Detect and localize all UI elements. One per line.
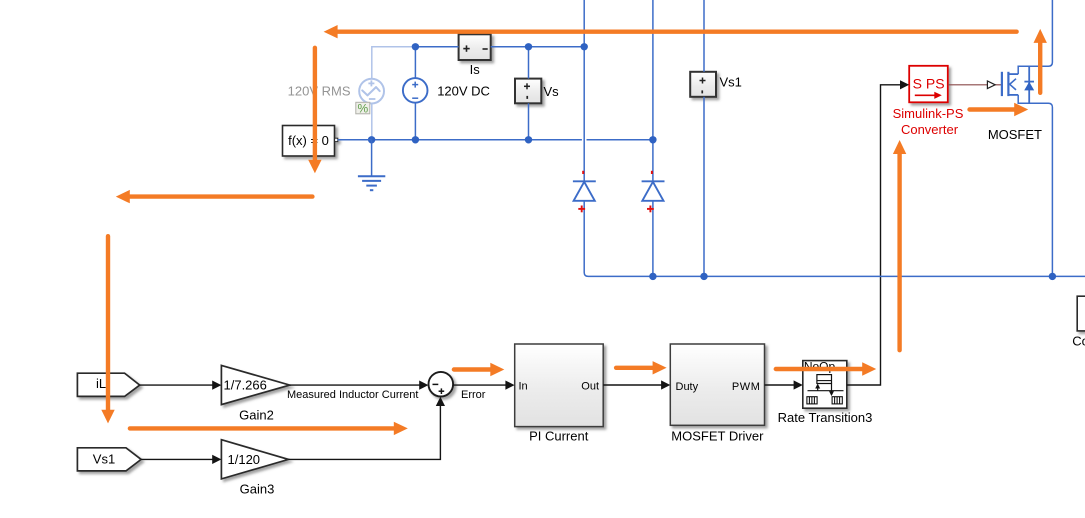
annotation arrow A1 top long left <box>324 25 1017 38</box>
annotation arrow A11 right at MOSFET source <box>970 103 1029 116</box>
junction node bottom bus at Vs1 <box>700 273 707 280</box>
annotation arrow A4 vertical down left <box>101 236 114 423</box>
wire MOSFET Driver to Rate Transition3 <box>765 384 795 386</box>
svg-text:Measured Inductor Current: Measured Inductor Current <box>287 389 418 401</box>
wire PI Current to MOSFET Driver <box>603 384 662 386</box>
sum block (error junction) <box>429 372 454 397</box>
svg-text:PI Current: PI Current <box>529 429 589 444</box>
svg-text:Vs1: Vs1 <box>720 75 742 90</box>
svg-text:S PS: S PS <box>913 76 945 92</box>
AC voltage source 120V RMS (commented through, faded) <box>359 47 415 140</box>
annotation arrow A8 over Rate Transition3 <box>776 362 876 375</box>
junction node bottom bus at MOSFET source <box>1049 273 1056 280</box>
annotation arrow A9 long up to converter <box>893 140 906 350</box>
svg-text:Vs: Vs <box>544 84 560 99</box>
wire Gain2 to sum (Measured Inductor Current) <box>290 384 420 386</box>
diode D2 anode red plus <box>647 206 654 213</box>
solver block f(x)=0 <box>283 126 338 157</box>
svg-text:Gain3: Gain3 <box>240 482 275 497</box>
diode D1 anode red plus <box>578 206 585 213</box>
input port iL <box>77 373 139 396</box>
wire Rate Transition3 feedback up to Simulink-PS converter <box>847 85 900 385</box>
svg-text:Rate Transition3: Rate Transition3 <box>778 410 873 425</box>
ground symbol <box>371 140 373 176</box>
wire Vs sensor top <box>528 47 530 79</box>
gain block Gain2 <box>221 365 289 404</box>
svg-text:iL: iL <box>96 376 106 391</box>
svg-text:Simulink-PS: Simulink-PS <box>893 106 964 121</box>
Vs1 plus mark <box>700 78 706 84</box>
wire diode D2 to bottom bus <box>652 201 654 277</box>
Vs plus mark <box>524 83 530 89</box>
annotation arrow A10 up at MOSFET drain <box>1034 29 1047 93</box>
Rate Transition3 icon output arrow down <box>831 384 833 393</box>
svg-text:PWM: PWM <box>732 381 761 393</box>
Rate Transition3 icon right hatched clock box <box>832 397 842 404</box>
junction node top bus at DC source <box>412 43 419 50</box>
svg-text:Is: Is <box>470 62 481 77</box>
vertical wire to diode D1 from top edge <box>583 0 585 181</box>
svg-text:120V RMS: 120V RMS <box>288 83 351 98</box>
wire sum to PI Current (Error) <box>453 384 505 386</box>
PS signal wire converter to MOSFET gate <box>948 84 988 86</box>
junction node top bus at Vs <box>525 43 532 50</box>
input port Vs1 <box>77 448 141 471</box>
Vs1 bottom polarity tick <box>701 90 703 93</box>
svg-text:MOSFET: MOSFET <box>988 127 1042 142</box>
svg-text:NoOp: NoOp <box>804 360 836 374</box>
Vs bottom polarity tick <box>526 96 528 99</box>
voltage sensor Vs1 block <box>690 72 716 97</box>
svg-text:Error: Error <box>461 389 486 401</box>
svg-text:1/120: 1/120 <box>228 452 261 467</box>
partial block Co... at right edge <box>1077 296 1085 331</box>
physical wire top bus right segment <box>491 46 585 48</box>
subsystem MOSFET Driver <box>670 344 764 425</box>
svg-text:1/7.266: 1/7.266 <box>224 378 267 393</box>
annotation arrow A5 long bottom right <box>130 422 408 435</box>
sum minus sign <box>433 383 439 385</box>
wire diode D1 to bottom bus (rounded corner) and bottom bus <box>584 201 1085 277</box>
vertical wire to diode D2 from top edge <box>652 0 654 181</box>
junction node mid bus at DC source <box>412 136 419 143</box>
wire MOSFET drain up to top edge <box>1018 0 1052 74</box>
svg-text:120V DC: 120V DC <box>437 84 490 99</box>
wire Vs1 to Gain3 <box>141 458 213 460</box>
svg-text:%: % <box>357 101 368 115</box>
diode D2 <box>642 181 665 201</box>
svg-text:In: In <box>519 381 528 393</box>
svg-text:Vs1: Vs1 <box>93 452 115 467</box>
subsystem PI Current <box>515 344 604 427</box>
vertical wire to sensor Vs1 from top edge <box>703 0 705 72</box>
junction node mid bus at D2 <box>649 136 656 143</box>
comment-through percent badge <box>356 102 370 114</box>
wire DC source top <box>414 47 416 79</box>
transistor MOSFET <box>1002 66 1034 103</box>
Is plus mark <box>463 45 469 51</box>
wire iL to Gain2 <box>140 384 213 386</box>
junction node bottom bus at D2 <box>649 273 656 280</box>
annotation arrow A6 over Error wire <box>454 363 504 376</box>
annotation arrow A7 PI to Driver <box>616 361 667 374</box>
annotation arrow A3 mid left <box>116 190 313 203</box>
physical wire top bus left segment <box>415 46 458 48</box>
block Rate Transition3 <box>803 361 847 409</box>
PS signal open arrowhead at gate <box>987 81 995 89</box>
svg-text:Duty: Duty <box>676 381 699 393</box>
svg-text:Converter: Converter <box>901 122 959 137</box>
Rate Transition3 icon left hatched clock box <box>807 397 817 404</box>
svg-text:MOSFET Driver: MOSFET Driver <box>671 429 764 444</box>
Is minus mark <box>483 48 488 50</box>
svg-text:Gain2: Gain2 <box>239 407 274 422</box>
wire DC source bottom <box>414 103 416 140</box>
junction node mid bus at ground <box>368 136 375 143</box>
gain block Gain3 <box>221 440 288 479</box>
MOSFET body diode triangle <box>1024 82 1034 91</box>
physical wire mid bus from solver to diode D2 (gap at D1 line) <box>338 139 582 141</box>
DC voltage source 120V DC <box>403 78 428 103</box>
svg-text:Con: Con <box>1072 333 1085 348</box>
diode D2 cathode red tick <box>651 171 653 174</box>
Rate Transition3 icon input arrow up <box>817 386 819 391</box>
annotation arrow A2 vertical down near solver <box>308 48 321 174</box>
sum plus sign <box>439 388 445 394</box>
diode D1 cathode red tick <box>582 171 584 174</box>
wire Vs1 sensor bottom to bottom bus <box>703 97 705 277</box>
diode D1 <box>573 181 596 201</box>
junction node top bus at D1 branch <box>581 43 588 50</box>
wire MOSFET source down to bottom bus <box>1018 95 1052 277</box>
voltage sensor Vs block <box>515 79 541 104</box>
Simulink-PS block icon arrow <box>915 94 936 96</box>
svg-text:f(x) = 0: f(x) = 0 <box>288 133 329 148</box>
Rate Transition3 icon baseline <box>808 390 844 392</box>
wire solver to mid bus <box>338 139 372 141</box>
junction node mid bus at Vs <box>525 136 532 143</box>
wire Gain3 to sum plus input <box>288 405 440 459</box>
wire Vs sensor bottom <box>528 103 530 140</box>
current sensor Is block <box>459 34 491 60</box>
svg-text:Out: Out <box>581 381 599 393</box>
Rate Transition3 icon register box <box>817 375 832 384</box>
converter block U1 Simulink-PS <box>909 66 948 103</box>
